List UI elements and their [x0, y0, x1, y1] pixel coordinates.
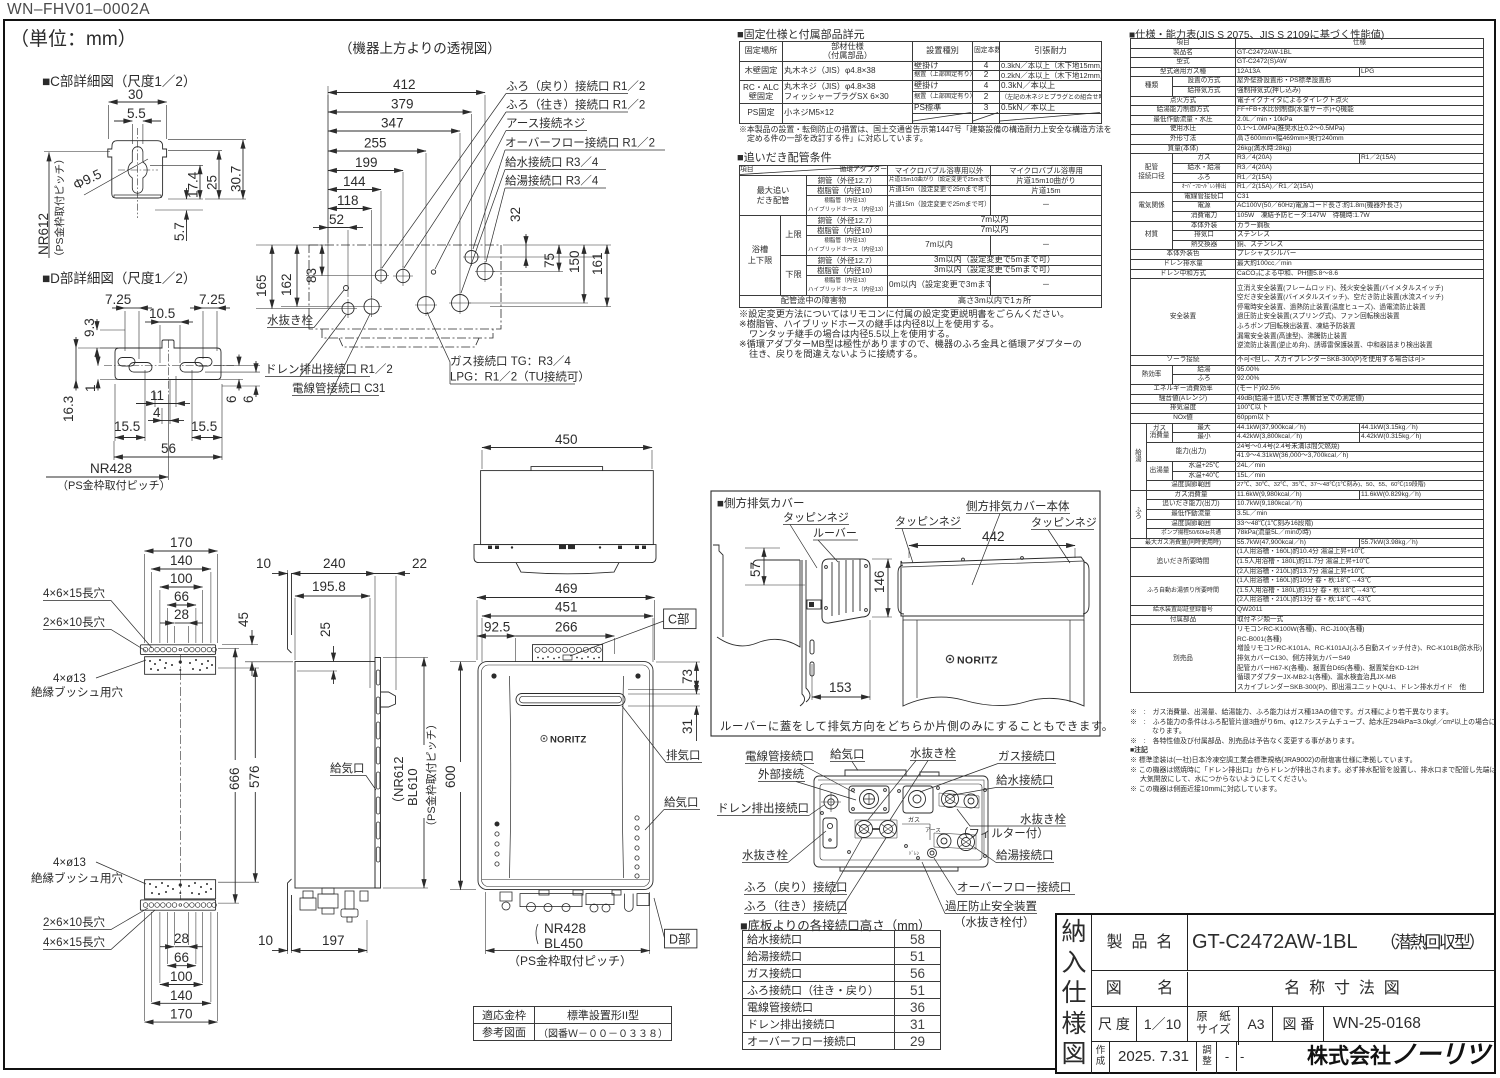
svg-text:タッピンネジ: タッピンネジ: [1031, 516, 1097, 529]
front body bottom seam: [482, 879, 649, 881]
exhaust louver: [516, 694, 625, 706]
svg-text:255: 255: [364, 136, 387, 151]
front bottom pipe cluster: [500, 890, 649, 912]
svg-text:C部: C部: [668, 612, 690, 627]
svg-text:タッピンネジ: タッピンネジ: [895, 515, 961, 528]
svg-text:150: 150: [567, 250, 582, 273]
upper insulation-bush plate: [145, 657, 216, 675]
left drawing: unit wall profile: [713, 545, 723, 637]
NORITZ logo front: [541, 735, 587, 746]
top view body phantom outline: [309, 245, 501, 347]
svg-text:10: 10: [256, 556, 271, 571]
svg-text:4×6×15長穴: 4×6×15長穴: [43, 586, 106, 600]
svg-text:Φ9.5: Φ9.5: [71, 166, 104, 192]
title block: [1055, 913, 1496, 1074]
top view connection circles: [344, 286, 349, 291]
svg-text:LPG：R1／2（TU接続可）: LPG：R1／2（TU接続可）: [450, 370, 590, 384]
svg-text:給湯接続口: 給湯接続口: [996, 848, 1054, 862]
hot water outlet cluster: [937, 834, 951, 848]
svg-text:絶縁ブッシュ用穴: 絶縁ブッシュ用穴: [31, 685, 123, 699]
svg-text:（機器上方よりの透視図）: （機器上方よりの透視図）: [339, 41, 501, 56]
centerline between strips: [179, 655, 181, 900]
svg-text:170: 170: [170, 1007, 193, 1022]
svg-text:タッピンネジ: タッピンネジ: [783, 511, 849, 524]
svg-text:NORITZ: NORITZ: [550, 735, 587, 746]
svg-text:給水接続口 R3／4: 給水接続口 R3／4: [505, 155, 599, 169]
svg-text:ドレン排出接続口 R1／2: ドレン排出接続口 R1／2: [265, 362, 393, 376]
svg-text:162: 162: [279, 273, 294, 296]
wall line upper: [288, 573, 292, 653]
svg-text:（フィルター付）: （フィルター付）: [957, 827, 1049, 840]
side drain plug slot: [823, 818, 837, 848]
svg-text:450: 450: [555, 432, 578, 447]
svg-text:ふろ（往き）接続口: ふろ（往き）接続口: [744, 899, 848, 913]
svg-text:66: 66: [174, 950, 189, 965]
side back plate: [375, 658, 381, 889]
right drawing: cover top band: [901, 557, 1084, 616]
svg-text:57: 57: [748, 562, 763, 577]
svg-text:ルーバー: ルーバー: [813, 527, 857, 540]
left drawing: mount plate: [806, 560, 810, 702]
svg-text:6: 6: [224, 395, 239, 403]
exhaust cover panel border: [711, 491, 1100, 736]
upper mounting strip with holes: [140, 645, 215, 655]
svg-text:ドレン排出接続口: ドレン排出接続口: [717, 801, 809, 815]
notes under spec table: [1130, 708, 1498, 794]
svg-text:給気口: 給気口: [330, 761, 365, 775]
svg-text:25: 25: [205, 175, 220, 190]
svg-text:絶縁ブッシュ用穴: 絶縁ブッシュ用穴: [31, 871, 123, 885]
svg-text:1: 1: [83, 384, 98, 392]
D-detail centerlines: [104, 365, 234, 367]
svg-text:11: 11: [150, 388, 164, 403]
svg-text:576: 576: [247, 765, 262, 788]
svg-text:オーバーフロー接続口 R1／2: オーバーフロー接続口 R1／2: [505, 136, 655, 150]
svg-text:給気口: 給気口: [664, 795, 699, 809]
NORITZ logo on cover: [946, 655, 998, 667]
svg-text:15.5: 15.5: [114, 419, 140, 434]
crossed-out cells table1: [913, 113, 1100, 122]
svg-text:■C部詳細図（尺度1／2）: ■C部詳細図（尺度1／2）: [42, 74, 196, 89]
svg-text:22: 22: [412, 556, 427, 571]
svg-text:412: 412: [393, 77, 416, 92]
svg-text:ﾄﾞﾚﾝ: ﾄﾞﾚﾝ: [909, 850, 920, 857]
svg-text:ふろ（戻り）接続口: ふろ（戻り）接続口: [744, 880, 848, 894]
svg-text:266: 266: [555, 620, 578, 635]
bottom view body outline: [814, 776, 988, 867]
lower insulation-bush plate: [145, 880, 216, 899]
svg-text:（水抜き栓付）: （水抜き栓付）: [954, 915, 1035, 929]
svg-text:153: 153: [829, 680, 852, 695]
reheating piping condition table title: [737, 149, 832, 165]
lid top-view outline: [481, 471, 654, 545]
svg-text:BL610: BL610: [405, 768, 420, 806]
svg-text:118: 118: [337, 193, 359, 208]
svg-text:92.5: 92.5: [484, 620, 510, 635]
lid screws: [488, 545, 646, 550]
D-detail slots: [118, 358, 135, 367]
bottom view inner base plate: [820, 784, 982, 860]
svg-text:31: 31: [680, 719, 695, 734]
svg-text:ガス: ガス: [908, 816, 920, 824]
spec table title: [1129, 26, 1384, 41]
svg-text:379: 379: [391, 97, 414, 112]
svg-text:146: 146: [872, 570, 887, 593]
svg-text:17.4: 17.4: [186, 171, 201, 198]
svg-text:4×ø13: 4×ø13: [53, 673, 86, 685]
svg-text:水抜き栓: 水抜き栓: [267, 313, 313, 327]
svg-text:32: 32: [508, 207, 523, 222]
svg-text:15.5: 15.5: [191, 419, 217, 434]
svg-text:NORITZ: NORITZ: [957, 655, 998, 667]
svg-text:10: 10: [258, 933, 273, 948]
side bracket tab top: [381, 692, 396, 707]
svg-text:外部接続: 外部接続: [758, 767, 804, 781]
C-detail centerlines: [137, 128, 139, 218]
D-detail bracket outline: [115, 340, 221, 380]
svg-text:451: 451: [555, 600, 578, 615]
side back louver slots: [376, 670, 380, 862]
side bottom pipes: [300, 888, 368, 922]
svg-text:6: 6: [241, 395, 256, 403]
svg-text:（PS金枠取付ピッチ）: （PS金枠取付ピッチ）: [508, 953, 632, 968]
svg-text:電線管接続口: 電線管接続口: [745, 749, 814, 763]
svg-text:給水接続口: 給水接続口: [996, 773, 1054, 787]
svg-text:水抜き栓: 水抜き栓: [910, 746, 956, 760]
svg-text:100: 100: [170, 571, 193, 586]
svg-text:（PS金枠取付ピッチ）: （PS金枠取付ピッチ）: [57, 478, 171, 492]
overflow outlet: [928, 849, 937, 858]
svg-text:469: 469: [555, 581, 578, 596]
svg-text:170: 170: [170, 535, 193, 550]
svg-text:600: 600: [443, 765, 458, 788]
svg-text:100: 100: [170, 969, 193, 984]
svg-text:75: 75: [542, 253, 557, 268]
svg-text:水抜き栓: 水抜き栓: [742, 848, 788, 862]
side body outline: [295, 662, 375, 889]
svg-text:9.3: 9.3: [82, 318, 97, 337]
svg-text:（NR612: （NR612: [391, 757, 406, 810]
svg-text:排気口: 排気口: [666, 748, 701, 762]
svg-text:給湯接続口 R3／4: 給湯接続口 R3／4: [505, 174, 599, 188]
wall line lower: [288, 879, 292, 951]
svg-text:140: 140: [170, 988, 193, 1003]
fixing spec table title: [737, 26, 865, 42]
lid flange: [474, 545, 656, 563]
svg-text:側方排気カバー本体: 側方排気カバー本体: [966, 499, 1070, 513]
svg-text:オーバーフロー接続口: オーバーフロー接続口: [957, 880, 1071, 894]
svg-text:D部: D部: [669, 932, 691, 947]
svg-text:■D部詳細図（尺度1／2）: ■D部詳細図（尺度1／2）: [42, 271, 196, 286]
misc small parts: [898, 790, 901, 793]
D-part callout box: [665, 929, 697, 948]
drain outlet fitting: [824, 795, 838, 809]
svg-text:電線管接続口 C31: 電線管接続口 C31: [292, 381, 385, 395]
connection heights table title: [740, 915, 931, 934]
frame reference table: [473, 1006, 672, 1041]
svg-text:7.25: 7.25: [199, 292, 225, 307]
svg-text:ふろ（戻り）接続口 R1／2: ふろ（戻り）接続口 R1／2: [506, 79, 645, 93]
svg-text:7.25: 7.25: [105, 292, 131, 307]
water inlet cluster: [942, 791, 959, 808]
header diagonal table2: [740, 166, 886, 175]
connection heights table: [742, 930, 941, 1050]
svg-text:4×ø13: 4×ø13: [53, 857, 86, 869]
svg-text:■側方排気カバー: ■側方排気カバー: [717, 496, 804, 510]
dimension NR428 BL450: [536, 924, 538, 944]
svg-text:アース接続ネジ: アース接続ネジ: [506, 116, 585, 130]
svg-text:144: 144: [343, 174, 366, 189]
svg-text:197: 197: [322, 933, 345, 948]
svg-text:30.7: 30.7: [229, 166, 244, 192]
right drawing: cover lower body: [903, 620, 1084, 706]
svg-text:199: 199: [355, 155, 378, 170]
C-part callout box: [664, 609, 696, 629]
svg-text:66: 66: [174, 589, 189, 604]
svg-text:2×6×10長穴: 2×6×10長穴: [43, 915, 106, 929]
svg-text:ガス接続口: ガス接続口: [998, 749, 1056, 763]
svg-text:165: 165: [254, 274, 269, 297]
svg-text:BL450: BL450: [544, 936, 583, 951]
notes under piping table: [739, 310, 1082, 360]
svg-text:ガス接続口 TG：R3／4: ガス接続口 TG：R3／4: [450, 354, 571, 368]
svg-text:給気口: 給気口: [830, 747, 865, 761]
reheating piping condition table: [739, 165, 1102, 308]
svg-text:442: 442: [982, 529, 1005, 544]
C-detail keyhole slot: [128, 147, 147, 194]
svg-text:5.5: 5.5: [127, 106, 146, 121]
svg-text:5.7: 5.7: [172, 222, 187, 241]
svg-text:4×6×15長穴: 4×6×15長穴: [43, 935, 106, 949]
front side vent dots: [495, 676, 639, 878]
svg-text:45: 45: [236, 612, 251, 627]
svg-text:25: 25: [318, 622, 333, 637]
svg-text:28: 28: [174, 607, 189, 622]
svg-text:NR428: NR428: [544, 921, 586, 936]
svg-text:52: 52: [329, 212, 344, 227]
svg-text:73: 73: [680, 669, 695, 684]
svg-text:347: 347: [381, 116, 404, 131]
svg-text:ルーバーに蓋をして排気方向をどちらか片側のみにすることもでき: ルーバーに蓋をして排気方向をどちらか片側のみにすることもできます。: [720, 719, 1114, 733]
svg-text:30: 30: [128, 87, 143, 102]
furo return/supply valves: [856, 821, 873, 838]
svg-text:ふろ（往き）接続口 R1／2: ふろ（往き）接続口 R1／2: [506, 98, 645, 112]
svg-text:（PS金枠取付ピッチ）: （PS金枠取付ピッチ）: [424, 718, 438, 832]
fixing spec table: [739, 41, 1102, 124]
top terminal strip: [533, 645, 603, 662]
svg-text:（PS金枠取付ピッチ）: （PS金枠取付ピッチ）: [53, 153, 66, 262]
svg-text:16.3: 16.3: [61, 396, 76, 422]
svg-text:161: 161: [590, 252, 605, 275]
svg-text:666: 666: [227, 767, 242, 790]
gas connection block: [903, 786, 933, 813]
C-detail bracket outline: [108, 141, 167, 198]
note under fixing table: [739, 125, 1112, 143]
svg-text:2×6×10長穴: 2×6×10長穴: [43, 615, 106, 629]
conduit terminal box: [849, 786, 889, 813]
front screws: [491, 673, 496, 678]
svg-text:NR428: NR428: [90, 461, 132, 476]
svg-text:140: 140: [170, 553, 193, 568]
svg-text:28: 28: [174, 931, 189, 946]
svg-text:水抜き栓: 水抜き栓: [1020, 812, 1066, 826]
svg-text:10.5: 10.5: [149, 306, 175, 321]
svg-text:240: 240: [323, 556, 346, 571]
svg-text:4: 4: [153, 405, 161, 420]
spec table: [1130, 38, 1484, 693]
svg-text:195.8: 195.8: [312, 579, 346, 594]
lower mounting strip with holes: [140, 900, 215, 910]
front body outline: [478, 662, 653, 890]
svg-text:アース: アース: [925, 827, 941, 834]
left drawing: louver unit: [822, 559, 870, 623]
svg-text:過圧防止安全装置: 過圧防止安全装置: [945, 899, 1037, 913]
